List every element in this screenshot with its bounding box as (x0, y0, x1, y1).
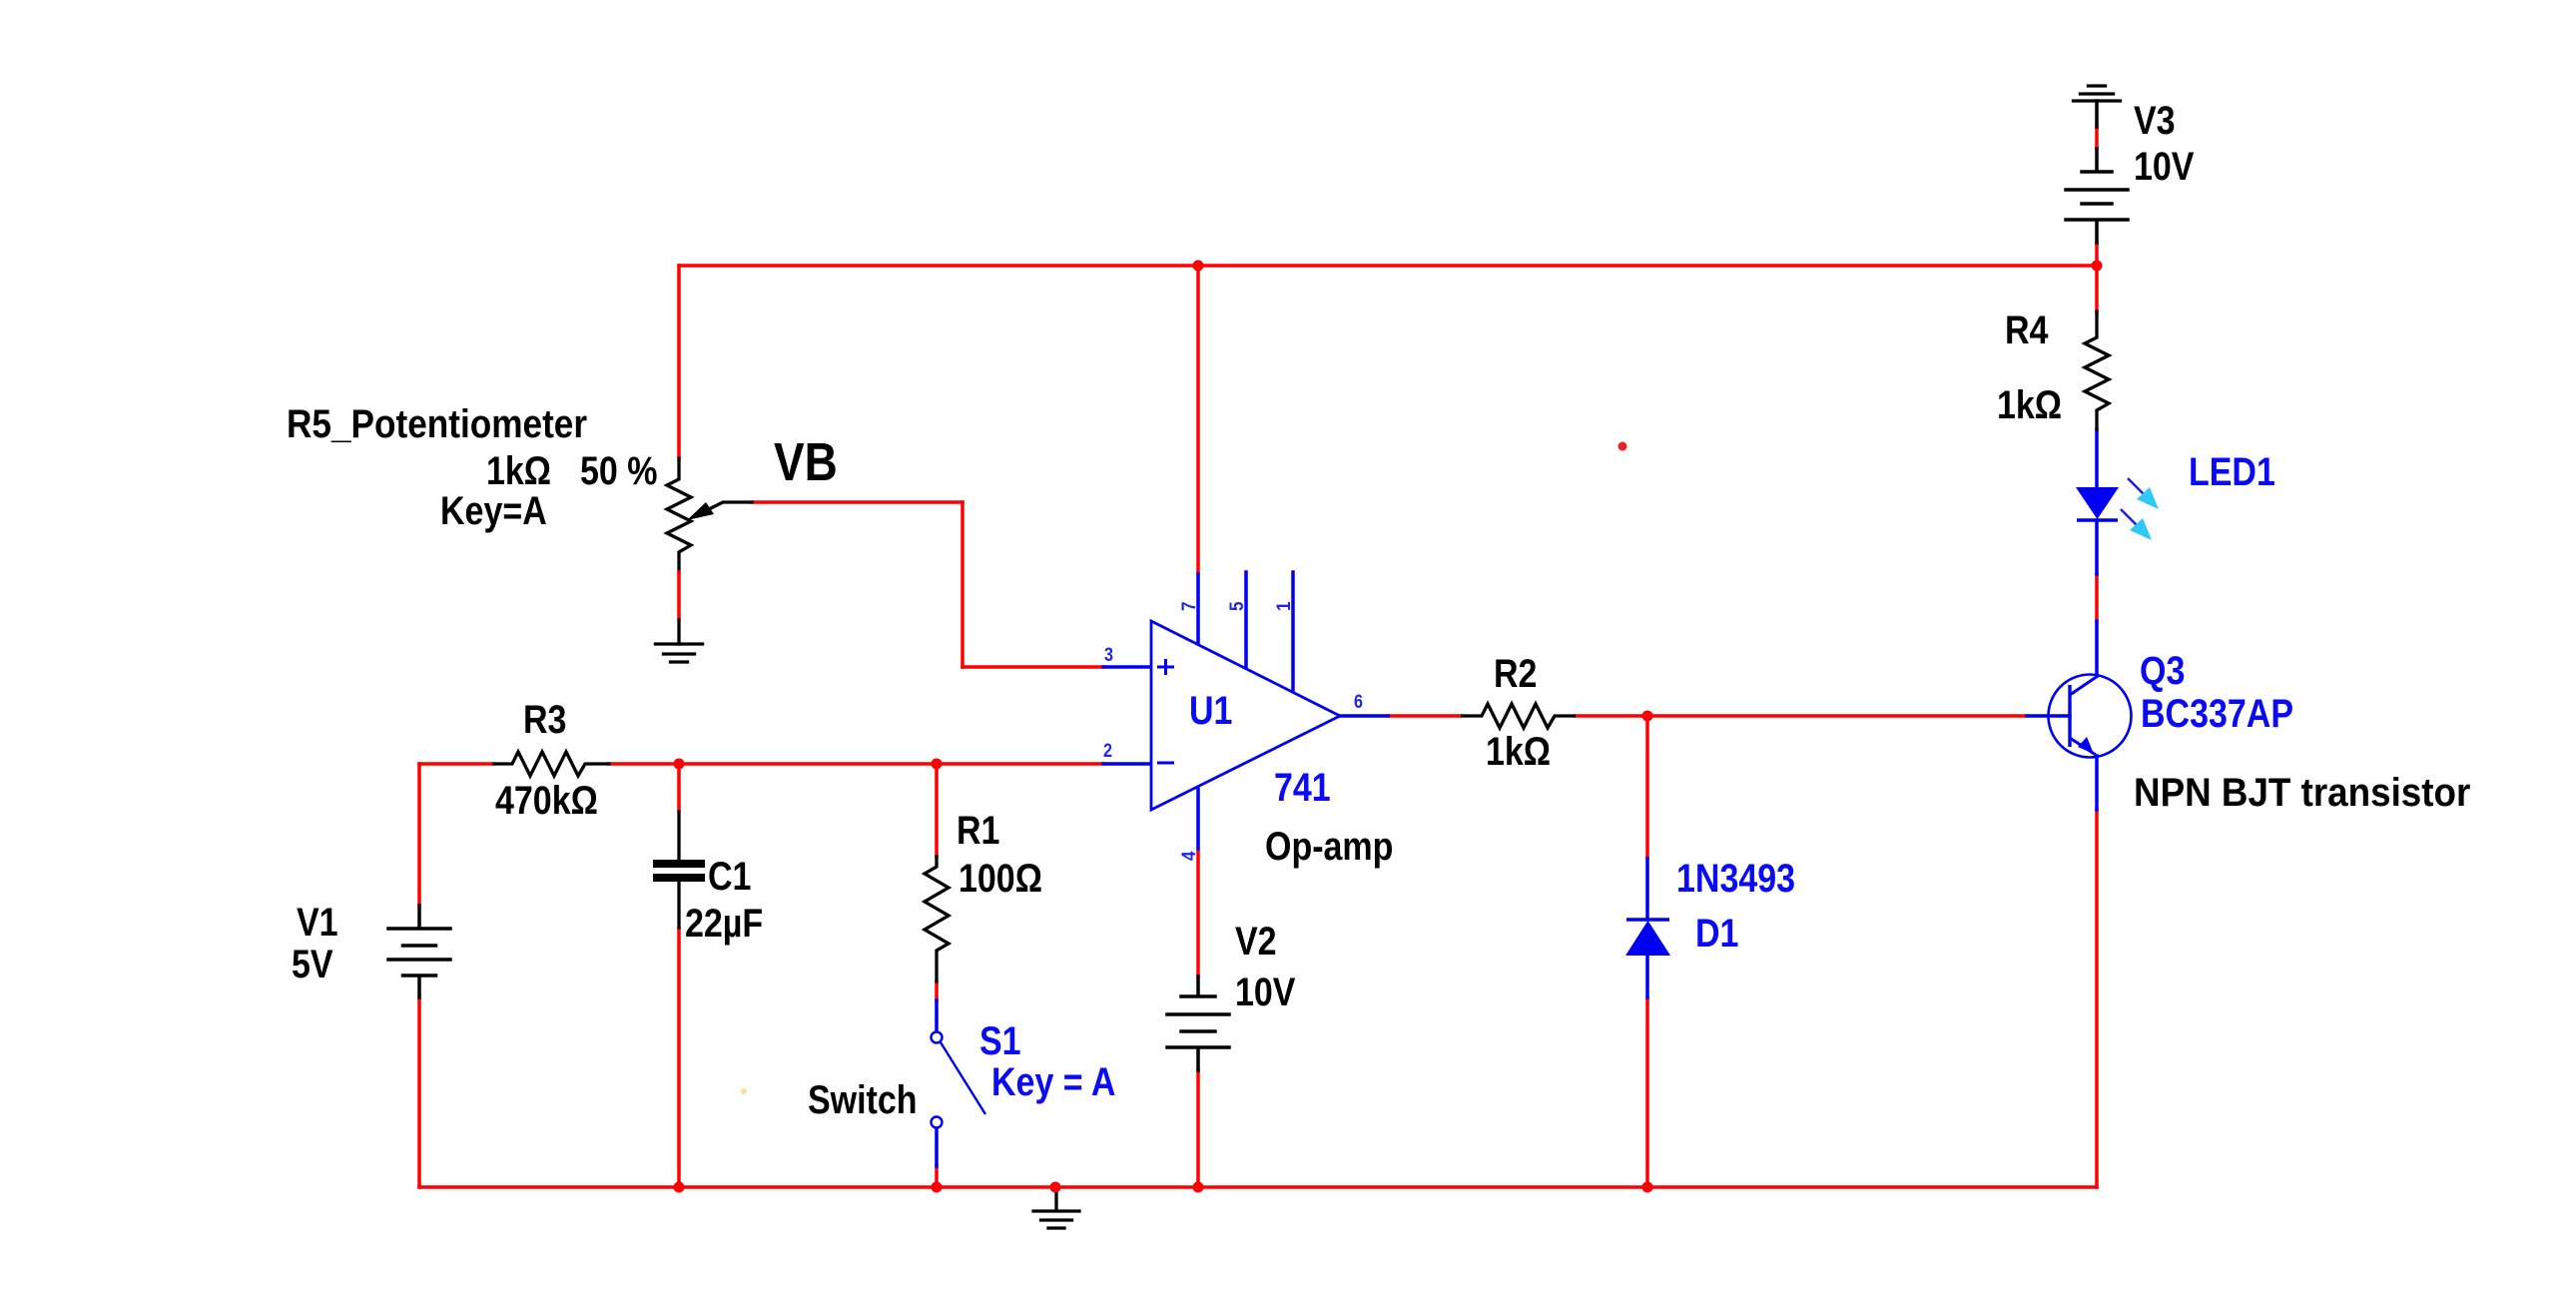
switch S1 top contact (932, 1032, 943, 1043)
resistor R4 (2085, 312, 2109, 429)
wire mid rail R3 to pin 2 (609, 762, 1103, 766)
svg-text:S1: S1 (979, 1017, 1021, 1062)
wire pin7 supply (1196, 266, 1200, 574)
junction (S1 / bottom rail) (932, 1182, 943, 1193)
resistor R1 (925, 857, 949, 981)
wire S1 top blue (935, 1000, 939, 1031)
wire pin 6 stub (1340, 714, 1388, 718)
op-amp U1 triangle (1151, 621, 1340, 810)
svg-text:22µF: 22µF (685, 900, 763, 945)
wire bottom rail (419, 1185, 2097, 1189)
wire R1 top (935, 764, 939, 857)
svg-text:C1: C1 (708, 853, 751, 898)
wire R1 to switch (935, 981, 939, 1000)
wire mid rail left of R3 (419, 762, 494, 766)
svg-text:Key = A: Key = A (991, 1058, 1115, 1103)
svg-text:5: 5 (1226, 601, 1247, 611)
LED1 light arrow 2 tail (2121, 509, 2138, 526)
LED1 cathode bar (2077, 518, 2118, 522)
svg-text:V1: V1 (297, 899, 338, 944)
svg-text:10V: 10V (1235, 968, 1296, 1013)
svg-text:1kΩ: 1kΩ (486, 447, 551, 492)
svg-text:10V: 10V (2134, 143, 2195, 188)
wire pin 2 stub (1103, 762, 1151, 766)
svg-text:D1: D1 (1695, 910, 1738, 955)
op-amp U1 minus input marker (1157, 762, 1174, 765)
junction (V2 / bottom rail) (1193, 1182, 1204, 1193)
wire V1 bottom (417, 997, 421, 1187)
LED1 light arrow 1 head (2137, 487, 2159, 509)
junction (ground / bottom rail) (1050, 1182, 1061, 1193)
switch S1 blade (941, 1042, 985, 1114)
svg-text:1N3493: 1N3493 (1676, 855, 1795, 900)
stray red dot (1618, 442, 1627, 451)
svg-text:7: 7 (1178, 601, 1199, 611)
junction (C1 / bottom rail) (674, 1182, 685, 1193)
wire output to R2 (1388, 714, 1461, 718)
wire base stub (2027, 714, 2070, 718)
transistor Q3 base bar (2068, 685, 2071, 747)
wire top rail (V3 node to pin7 column) (679, 264, 2097, 268)
battery V2 (1167, 976, 1229, 1070)
svg-text:Switch: Switch (808, 1076, 918, 1121)
svg-text:V2: V2 (1235, 918, 1277, 963)
wire C1 top (677, 764, 681, 812)
svg-text:6: 6 (1354, 691, 1363, 713)
wire V3 to top rail (2095, 243, 2099, 266)
stray faint dot near switch (741, 1088, 747, 1094)
capacitor C1 plates (653, 860, 705, 868)
wire pin 3 stub (1103, 665, 1151, 669)
wire R2 to base node (1576, 714, 2027, 718)
wire pin4 to V2 (1196, 849, 1200, 976)
svg-text:V3: V3 (2134, 97, 2176, 142)
capacitor C1 leads (677, 812, 680, 928)
svg-text:1kΩ: 1kΩ (1486, 728, 1551, 773)
wire V1 top (417, 764, 421, 906)
junction (R1 / mid rail) (932, 759, 943, 770)
svg-text:1kΩ: 1kΩ (1997, 381, 2062, 426)
transistor Q3 circle (2049, 675, 2132, 758)
wire LED to collector red segment (2095, 574, 2099, 621)
wire VB vertical (961, 502, 965, 667)
junction (pin7 / top rail) (1193, 261, 1204, 272)
wire pin 5 stub (1244, 572, 1248, 669)
battery V1 (388, 906, 450, 997)
svg-text:R2: R2 (1494, 650, 1537, 695)
wire VB wiper horizontal (752, 500, 963, 504)
LED1 triangle (2076, 487, 2119, 519)
ground (V3 top, inverted) (2074, 86, 2121, 101)
svg-text:BC337AP: BC337AP (2141, 690, 2293, 735)
junction (V3 / top rail) (2092, 261, 2103, 272)
potentiometer R5 body (667, 458, 691, 572)
svg-text:470kΩ: 470kΩ (495, 777, 598, 822)
potentiometer R5 ground lead (677, 620, 680, 644)
svg-text:4: 4 (1178, 851, 1199, 861)
wire collector blue (2095, 621, 2099, 676)
wire LED cathode blue (2095, 520, 2099, 574)
svg-text:50 %: 50 % (580, 447, 657, 492)
wire V2 bottom (1196, 1070, 1200, 1187)
svg-text:LED1: LED1 (2189, 448, 2275, 493)
wire emitter blue (2095, 756, 2099, 810)
wire pin 4 stub (1196, 787, 1200, 849)
potentiometer R5 wiper arrowhead (687, 502, 714, 520)
svg-text:NPN BJT transistor: NPN BJT transistor (2134, 771, 2470, 816)
ground (bottom rail) (1033, 1188, 1079, 1228)
switch S1 bottom contact (932, 1117, 943, 1128)
wire switch bottom (935, 1166, 939, 1187)
wire pin 7 stub (1196, 574, 1200, 645)
resistor R3 (494, 752, 609, 776)
svg-text:Key=A: Key=A (440, 487, 547, 532)
svg-text:100Ω: 100Ω (959, 855, 1042, 900)
wire D1 cathode blue (1645, 956, 1649, 997)
ground (potentiometer) (656, 644, 703, 662)
wire emitter to bottom rail (2095, 810, 2099, 1187)
wire top rail to R4 (2095, 266, 2099, 312)
transistor Q3 emitter diagonal (2070, 738, 2096, 755)
transistor Q3 collector diagonal (2070, 676, 2098, 695)
potentiometer R5 wiper arm (707, 502, 752, 510)
LED1 light arrow 1 tail (2128, 478, 2145, 495)
svg-text:Q3: Q3 (2140, 647, 2185, 692)
svg-text:5V: 5V (292, 941, 333, 985)
battery V3 (2066, 101, 2128, 243)
svg-text:R3: R3 (523, 696, 566, 741)
svg-text:2: 2 (1103, 740, 1112, 762)
svg-text:U1: U1 (1189, 687, 1232, 732)
svg-text:R1: R1 (957, 807, 999, 852)
svg-text:1: 1 (1273, 601, 1294, 611)
wire V3 upper red segment (2095, 127, 2099, 149)
svg-text:R5_Potentiometer: R5_Potentiometer (287, 401, 587, 446)
wire pin 1 stub (1291, 572, 1295, 692)
wire potentiometer top (677, 266, 681, 458)
transistor Q3 emitter arrowhead (2078, 737, 2094, 754)
wire VB to pin 3 (963, 665, 1103, 669)
op-amp U1 plus input marker (1157, 659, 1174, 675)
wire R4 to LED blue (2095, 429, 2099, 488)
junction (D1 / bottom rail) (1642, 1182, 1653, 1193)
LED1 light arrow 2 head (2130, 518, 2152, 540)
svg-text:741: 741 (1274, 764, 1331, 809)
wire S1 bottom blue (935, 1128, 939, 1166)
junction (R2 output / D1) (1642, 711, 1653, 722)
svg-text:3: 3 (1104, 644, 1113, 666)
junction (C1 / mid rail) (674, 759, 685, 770)
wire D1 anode blue (1645, 859, 1649, 920)
potentiometer R5 lower red segment (677, 572, 681, 620)
wire D1 top (1645, 716, 1649, 859)
wire D1 bottom (1645, 997, 1649, 1187)
diode D1 cathode bar (1626, 918, 1669, 922)
svg-text:Op-amp: Op-amp (1265, 823, 1393, 868)
wire C1 bottom (677, 928, 681, 1187)
diode D1 triangle (1625, 921, 1670, 956)
svg-text:VB: VB (774, 432, 838, 492)
svg-text:R4: R4 (2005, 307, 2049, 351)
resistor R2 (1461, 704, 1576, 728)
